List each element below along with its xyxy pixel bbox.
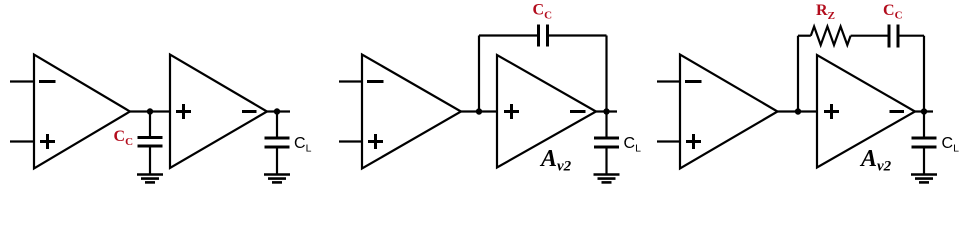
op-amp U5: [680, 55, 778, 169]
output node junction dot: [921, 108, 927, 114]
U3 minus sign: [367, 80, 384, 83]
capacitor C_L plates: [265, 138, 290, 147]
U2 minus sign: [242, 110, 257, 113]
wire U1 inverting input: [10, 80, 34, 82]
wire output node to C_L: [276, 112, 278, 138]
U4 minus sign: [570, 110, 586, 113]
wire U1 non-inverting input: [10, 140, 34, 142]
wire U5 output to U6 input: [778, 110, 818, 112]
wire U2 output: [267, 110, 290, 112]
ground: [137, 175, 163, 183]
output node junction dot: [603, 108, 609, 114]
wire feedback top right: [549, 34, 607, 36]
U5 plus sign: [686, 134, 701, 149]
wire C_L to ground: [605, 147, 607, 174]
wire feedback right riser: [923, 36, 925, 112]
wire node to capacitor C_C: [149, 112, 151, 137]
wire U4 output: [596, 110, 617, 112]
wire feedback right riser: [605, 36, 607, 112]
U1 plus sign: [40, 134, 55, 149]
wire U1 output to U2 input: [130, 110, 170, 112]
op-amp U6: [817, 55, 915, 168]
U3 plus sign: [368, 134, 383, 149]
wire U3 non-inverting input: [339, 140, 362, 142]
ground: [911, 175, 937, 183]
wire U6 output: [915, 110, 933, 112]
wire U3 output to U4 input: [461, 110, 497, 112]
capacitor C_C plates: [889, 25, 898, 48]
wire U3 inverting input: [339, 80, 362, 82]
op-amp U3: [362, 55, 461, 169]
wire feedback to resistor R_Z: [798, 35, 811, 37]
wire C_L to ground: [276, 147, 278, 174]
resistor R_Z: [811, 27, 851, 46]
wire C_L to ground: [923, 147, 925, 174]
U6 minus sign: [890, 110, 905, 113]
op-amp U4: [497, 55, 596, 168]
wire feedback top left: [479, 34, 538, 36]
wire U5 inverting input: [657, 80, 680, 82]
wire output node to C_L: [605, 112, 607, 138]
node junction dot: [795, 108, 801, 114]
capacitor C_C plates: [539, 25, 548, 47]
output node junction dot: [274, 108, 280, 114]
wire feedback left riser: [478, 36, 480, 112]
node junction dot: [476, 108, 482, 114]
capacitor C_C plates: [138, 138, 163, 147]
wire R_Z to C_C: [851, 35, 888, 37]
op-amp U2: [170, 55, 267, 169]
U6 plus sign: [824, 104, 839, 119]
wire C_C to ground: [149, 146, 151, 174]
U5 minus sign: [685, 80, 702, 83]
U4 plus sign: [504, 104, 519, 119]
ground: [264, 175, 290, 183]
capacitor C_L plates: [912, 138, 937, 147]
op-amp U1: [34, 55, 130, 169]
wire U5 non-inverting input: [657, 140, 680, 142]
U2 plus sign: [176, 104, 191, 119]
wire output node to C_L: [923, 112, 925, 138]
wire feedback left riser: [797, 36, 799, 112]
wire C_C to output riser: [899, 35, 924, 37]
ground: [594, 175, 620, 183]
U1 minus sign: [39, 80, 56, 83]
node junction dot: [147, 108, 153, 114]
capacitor C_L plates: [594, 138, 619, 147]
